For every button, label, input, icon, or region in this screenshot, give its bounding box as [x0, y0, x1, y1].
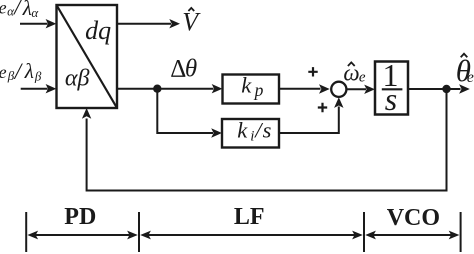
node junction dot after transform: [153, 85, 161, 93]
wire ki/s to summing junction: [279, 107, 339, 134]
summing junction: [331, 82, 346, 97]
wire summing junction to integrator: [346, 88, 366, 90]
wire junction to ki/s block: [157, 89, 213, 133]
feedback wire theta-e to transform block: [87, 89, 447, 191]
wire Delta-theta: [117, 88, 214, 90]
svg-text:dq: dq: [85, 16, 111, 45]
svg-text:p: p: [253, 80, 264, 100]
input arrow e_beta: [21, 88, 48, 90]
plus sign upper: [308, 67, 317, 76]
node output junction dot: [442, 85, 450, 93]
block kp: [223, 75, 280, 104]
dimension tick PD-LF: [138, 212, 140, 252]
wire V-hat output: [117, 23, 171, 25]
svg-text:/: /: [12, 0, 23, 20]
svg-text:LF: LF: [234, 204, 265, 230]
svg-text:/: /: [13, 59, 24, 84]
input arrow e_alpha: [20, 23, 48, 25]
plus sign lower: [318, 103, 327, 112]
svg-text:λ: λ: [24, 59, 34, 83]
svg-text:e: e: [359, 70, 366, 86]
label e_beta/lambda_beta: [0, 59, 42, 84]
svg-text:λ: λ: [22, 0, 32, 20]
label ki/s: [237, 118, 271, 145]
svg-text:e: e: [467, 69, 474, 86]
svg-text:αβ: αβ: [65, 66, 90, 92]
svg-text:k: k: [237, 118, 248, 143]
svg-text:s: s: [263, 118, 272, 143]
label theta-e-hat: [456, 53, 474, 88]
svg-text:ω: ω: [343, 61, 359, 86]
svg-text:PD: PD: [64, 204, 96, 230]
wire theta-e output: [408, 88, 461, 90]
svg-text:α: α: [31, 5, 39, 20]
svg-text:V: V: [182, 8, 201, 37]
dimension arrow PD: [36, 234, 131, 236]
wire kp to summing junction: [279, 88, 321, 90]
svg-text:k: k: [241, 73, 252, 98]
svg-text:i: i: [250, 128, 254, 144]
svg-text:VCO: VCO: [387, 205, 440, 231]
svg-text:s: s: [385, 81, 397, 117]
svg-text:β: β: [34, 69, 42, 84]
dimension arrow LF: [149, 234, 355, 236]
integrator fraction bar: [382, 88, 403, 90]
dimension tick right: [460, 212, 462, 252]
label omega-e-hat: [343, 61, 366, 86]
svg-text:θ: θ: [185, 55, 197, 82]
block integrator 1/s: [375, 62, 408, 115]
transform block diagonal: [57, 5, 118, 108]
label kp: [241, 73, 263, 100]
label V-hat: [182, 8, 201, 37]
dimension tick LF-VCO: [363, 212, 365, 252]
dimension arrow VCO: [374, 234, 452, 236]
dimension tick left: [25, 212, 27, 252]
svg-text:e: e: [0, 0, 7, 18]
svg-text:e: e: [0, 62, 7, 82]
label e_alpha/lambda_alpha: [0, 0, 39, 20]
transform block dq/alpha-beta U1: [57, 5, 118, 108]
svg-text:β: β: [7, 68, 15, 83]
block ki/s: [222, 119, 279, 148]
